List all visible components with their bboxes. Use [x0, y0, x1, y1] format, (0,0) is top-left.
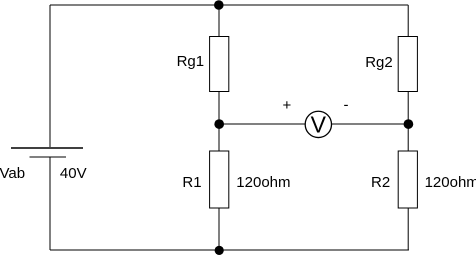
resistor Rg1 — [210, 37, 229, 92]
svg-text:-: - — [344, 97, 349, 114]
battery Vab bottom plate — [30, 156, 67, 158]
wire R2 to bottom rail — [407, 208, 409, 250]
svg-text:Rg2: Rg2 — [365, 54, 393, 71]
svg-text:R1: R1 — [182, 174, 201, 191]
wire bottom rail — [50, 249, 409, 251]
wire node A to voltmeter — [219, 123, 305, 125]
svg-text:Rg1: Rg1 — [177, 53, 205, 70]
wire Rg2 to node B — [407, 92, 409, 125]
voltmeter U1 circle — [305, 111, 331, 137]
resistor R2 — [398, 151, 417, 208]
svg-text:Vab: Vab — [0, 165, 25, 182]
wire top to Rg1 — [218, 5, 220, 37]
wire top rail to Rg2 — [407, 5, 409, 37]
node A (left bridge node) — [214, 119, 224, 129]
node top junction — [214, 0, 224, 10]
wire left rail upper — [49, 5, 51, 147]
node B (right bridge node) — [404, 119, 414, 129]
svg-text:40V: 40V — [60, 165, 87, 182]
wire left rail lower — [49, 157, 51, 250]
node bottom junction — [215, 246, 224, 255]
wire voltmeter to node B — [332, 123, 409, 125]
svg-text:120ohm: 120ohm — [425, 174, 476, 191]
svg-text:V: V — [311, 111, 327, 137]
wire top rail — [50, 4, 408, 6]
resistor Rg2 — [398, 37, 417, 92]
svg-text:R2: R2 — [371, 174, 390, 191]
resistor R1 — [210, 151, 229, 208]
battery Vab top plate — [11, 147, 83, 149]
wire Rg1 to node A — [218, 92, 220, 125]
wire R1 to bottom rail — [218, 208, 220, 250]
svg-text:120ohm: 120ohm — [236, 174, 290, 191]
wire node A to R1 — [218, 124, 220, 151]
wire node B to R2 — [407, 124, 409, 151]
svg-text:+: + — [283, 97, 292, 114]
